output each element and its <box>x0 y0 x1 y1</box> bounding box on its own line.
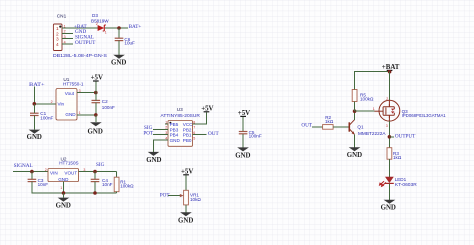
transistor Q1 <box>349 120 354 135</box>
svg-text:SIG: SIG <box>96 162 105 168</box>
wire POT to wiper <box>168 195 180 197</box>
wire BAT+ down to Vin node <box>34 87 56 104</box>
svg-text:MMBT2222A: MMBT2222A <box>358 131 386 136</box>
svg-text:+BAT: +BAT <box>382 64 400 71</box>
U3 left stubs <box>165 123 168 125</box>
svg-text:GND: GND <box>65 112 76 117</box>
svg-text:1: 1 <box>60 186 62 190</box>
capacitor C4 <box>91 179 100 181</box>
junction Vout node <box>94 91 98 95</box>
junction GND node <box>94 113 98 117</box>
junction OUTPUT node <box>388 135 392 139</box>
connector CN1 body <box>53 24 62 51</box>
wire OUT to R2 <box>312 126 323 128</box>
ground symbol (LED1) <box>384 200 396 204</box>
wire GND node down <box>95 115 97 122</box>
svg-text:GND: GND <box>56 203 71 210</box>
svg-text:POT: POT <box>143 130 154 136</box>
svg-text:OUT: OUT <box>301 123 312 129</box>
wire OUTPUT stub <box>389 136 394 138</box>
wire R5 bottom to node <box>354 102 356 112</box>
svg-text:10kΩ: 10kΩ <box>190 197 201 202</box>
svg-text:GND: GND <box>347 152 362 159</box>
wire U3 VCC to +5V <box>193 112 207 124</box>
wire node to C3 <box>31 172 33 180</box>
mosfet Q3 <box>374 100 399 121</box>
wire SIGNAL to U2 VIN <box>13 171 48 173</box>
mcu U3 body <box>168 121 193 147</box>
wire C4 to rail <box>94 182 96 193</box>
junction SIG node <box>93 170 97 174</box>
wire +5V node to C2 <box>95 93 97 101</box>
svg-text:DB128L-5.08-4P-GN-S: DB128L-5.08-4P-GN-S <box>53 53 107 58</box>
svg-text:2: 2 <box>51 100 53 104</box>
wire +BAT to Q3 source <box>389 72 391 101</box>
svg-text:PB1: PB1 <box>183 133 192 138</box>
ground symbol (VR1) <box>180 212 192 216</box>
svg-text:100nF: 100nF <box>249 133 262 138</box>
capacitor C6 <box>115 38 124 40</box>
svg-text:2: 2 <box>56 31 59 37</box>
svg-text:GND: GND <box>27 134 42 141</box>
capacitor C3 <box>28 179 37 181</box>
wire LED1 to ground <box>388 183 390 200</box>
wire CN1 pin3 stub <box>62 38 73 40</box>
capacitor C5 <box>239 132 248 134</box>
wire C2 to GND node <box>95 103 97 115</box>
resistor R2 <box>323 125 334 130</box>
resistor R3 <box>387 148 392 160</box>
svg-text:B5819W: B5819W <box>91 18 109 23</box>
wire U3 GND to ground <box>154 140 168 152</box>
svg-text:OUTPUT: OUTPUT <box>75 40 96 46</box>
svg-text:2: 2 <box>45 168 47 172</box>
svg-text:Q1: Q1 <box>357 125 364 130</box>
wire R5 top to +BAT rail <box>355 72 390 90</box>
svg-text:GND: GND <box>170 138 181 143</box>
svg-text:1kΩ: 1kΩ <box>325 119 334 124</box>
resistor R5 <box>352 90 357 102</box>
svg-text:U3: U3 <box>177 107 183 112</box>
power +5V (U3) <box>201 105 213 112</box>
svg-text:2: 2 <box>165 126 167 130</box>
wire D3 cathode to BAT+ <box>105 27 128 29</box>
power +BAT <box>382 64 400 72</box>
svg-text:VOUT: VOUT <box>64 170 77 175</box>
wire U2 ground stem <box>63 193 65 198</box>
svg-text:100nF: 100nF <box>40 115 53 120</box>
ground symbol (Q1) <box>349 147 361 151</box>
svg-text:BAT+: BAT+ <box>129 24 142 30</box>
wire CN1 pin2 stub <box>62 32 73 34</box>
power +5V (VR1) <box>181 168 193 190</box>
wire U3 PB1 to OUT <box>193 134 207 136</box>
svg-text:D3: D3 <box>92 13 98 18</box>
wire C3 to ground rail <box>32 182 117 193</box>
svg-text:1: 1 <box>56 26 59 32</box>
power +5V (C5) <box>238 110 250 131</box>
regulator U1 body <box>56 89 77 121</box>
svg-text:PB5: PB5 <box>170 122 179 127</box>
junction Q1 collector / Q3 gate node <box>353 109 357 113</box>
svg-text:4: 4 <box>56 42 59 48</box>
wire C6 to ground <box>118 41 120 55</box>
wire R2 to Q1 base <box>333 126 349 128</box>
wire node to Q3 gate <box>355 110 375 112</box>
svg-text:GND: GND <box>178 218 193 225</box>
svg-text:OUT: OUT <box>208 131 219 137</box>
wire R1 to rail <box>116 192 118 193</box>
svg-text:7: 7 <box>193 126 195 130</box>
resistor R1 <box>114 177 119 192</box>
svg-text:PB4: PB4 <box>170 133 179 138</box>
svg-text:SIGNAL: SIGNAL <box>14 163 33 169</box>
svg-text:GND: GND <box>381 205 396 212</box>
svg-text:CN1: CN1 <box>57 14 67 19</box>
wire R3 to LED1 <box>388 159 390 177</box>
wire Q3 drain down <box>388 115 390 121</box>
svg-text:1: 1 <box>105 31 107 35</box>
capacitor C1 <box>30 113 39 115</box>
svg-text:GND: GND <box>235 152 250 159</box>
svg-text:HT7550-1: HT7550-1 <box>63 82 84 87</box>
wire junction to C6 <box>118 28 120 38</box>
ground symbol (U3) <box>148 152 160 156</box>
svg-text:5: 5 <box>193 136 195 140</box>
svg-text:1: 1 <box>373 107 375 111</box>
wire Q1 collector up <box>354 111 356 120</box>
wire CN1 pin1 to D3 anode <box>62 27 98 29</box>
svg-text:1kΩ: 1kΩ <box>393 155 402 160</box>
svg-text:PB2: PB2 <box>183 127 192 132</box>
svg-text:PB3: PB3 <box>170 127 179 132</box>
svg-text:VCC: VCC <box>183 122 193 127</box>
diode D3 symbol <box>98 25 106 31</box>
ground symbol (C5) <box>237 147 249 151</box>
ground symbol (C6) <box>113 55 125 59</box>
potentiometer VR1 body <box>184 190 189 205</box>
svg-text:100kΩ: 100kΩ <box>120 184 134 189</box>
svg-text:IPD068P03L3GATMA1: IPD068P03L3GATMA1 <box>402 113 446 118</box>
svg-text:C2: C2 <box>102 99 108 104</box>
svg-text:3: 3 <box>386 124 388 128</box>
wire C5 to ground <box>242 134 244 148</box>
svg-text:Vout: Vout <box>65 91 75 96</box>
wire Q1 emitter down <box>354 134 356 147</box>
svg-text:PB0: PB0 <box>183 138 192 143</box>
svg-text:10uF: 10uF <box>124 41 135 46</box>
junction rail GND <box>62 191 66 195</box>
junction C1 tap <box>33 102 37 106</box>
svg-text:3: 3 <box>56 37 59 43</box>
svg-text:100nF: 100nF <box>102 105 115 110</box>
svg-text:VIN: VIN <box>50 170 58 175</box>
VR1 wiper arrow <box>180 194 184 197</box>
wire U2 VOUT to SIG node <box>79 171 117 173</box>
svg-text:3: 3 <box>165 131 167 135</box>
svg-text:10nF: 10nF <box>38 182 49 187</box>
svg-text:100kΩ: 100kΩ <box>360 97 374 102</box>
svg-text:GND: GND <box>58 177 69 182</box>
svg-text:GND: GND <box>111 60 126 67</box>
connector CN1 pin1 marker dot <box>59 26 61 28</box>
svg-text:GND: GND <box>146 157 161 164</box>
svg-text:Vin: Vin <box>58 101 65 106</box>
capacitor C2 <box>92 100 101 102</box>
svg-text:10nF: 10nF <box>102 182 113 187</box>
svg-text:KT-0603R: KT-0603R <box>395 182 418 187</box>
svg-text:HT7150S: HT7150S <box>59 161 78 166</box>
ground symbol (C1) <box>29 130 41 134</box>
regulator U2 body <box>48 169 79 182</box>
junction C4 rail <box>93 191 97 195</box>
svg-text:GND: GND <box>88 129 103 136</box>
junction C3 tap <box>30 170 34 174</box>
wire U2 GND pin to rail <box>63 182 65 194</box>
junction +BAT node <box>388 70 392 74</box>
wire VR1 to ground <box>185 205 187 213</box>
svg-text:1: 1 <box>165 120 167 124</box>
ground symbol (U2) <box>58 198 70 202</box>
power +5V (U1) <box>91 75 103 93</box>
svg-text:OUTPUT: OUTPUT <box>395 134 416 140</box>
svg-text:2: 2 <box>386 97 388 101</box>
wire U1 Vout to +5V node <box>77 92 96 94</box>
wire CN1 pin4 stub <box>62 43 73 45</box>
wire C4 column <box>94 172 96 180</box>
svg-text:ATTINY85-20SUR: ATTINY85-20SUR <box>161 113 201 118</box>
wire node to C1 <box>33 104 35 113</box>
led LED1 <box>379 177 394 187</box>
wire U1 GND pin to GND node <box>77 114 96 116</box>
svg-text:2: 2 <box>96 22 98 26</box>
svg-text:BAT+: BAT+ <box>29 82 45 88</box>
wire C1 to ground <box>33 116 35 130</box>
ground symbol (U1) <box>90 122 102 126</box>
wire SIG node down through R1 <box>116 172 118 178</box>
mcu U3 pin1 marker dot <box>169 122 171 124</box>
junction C6 tap <box>117 26 121 30</box>
